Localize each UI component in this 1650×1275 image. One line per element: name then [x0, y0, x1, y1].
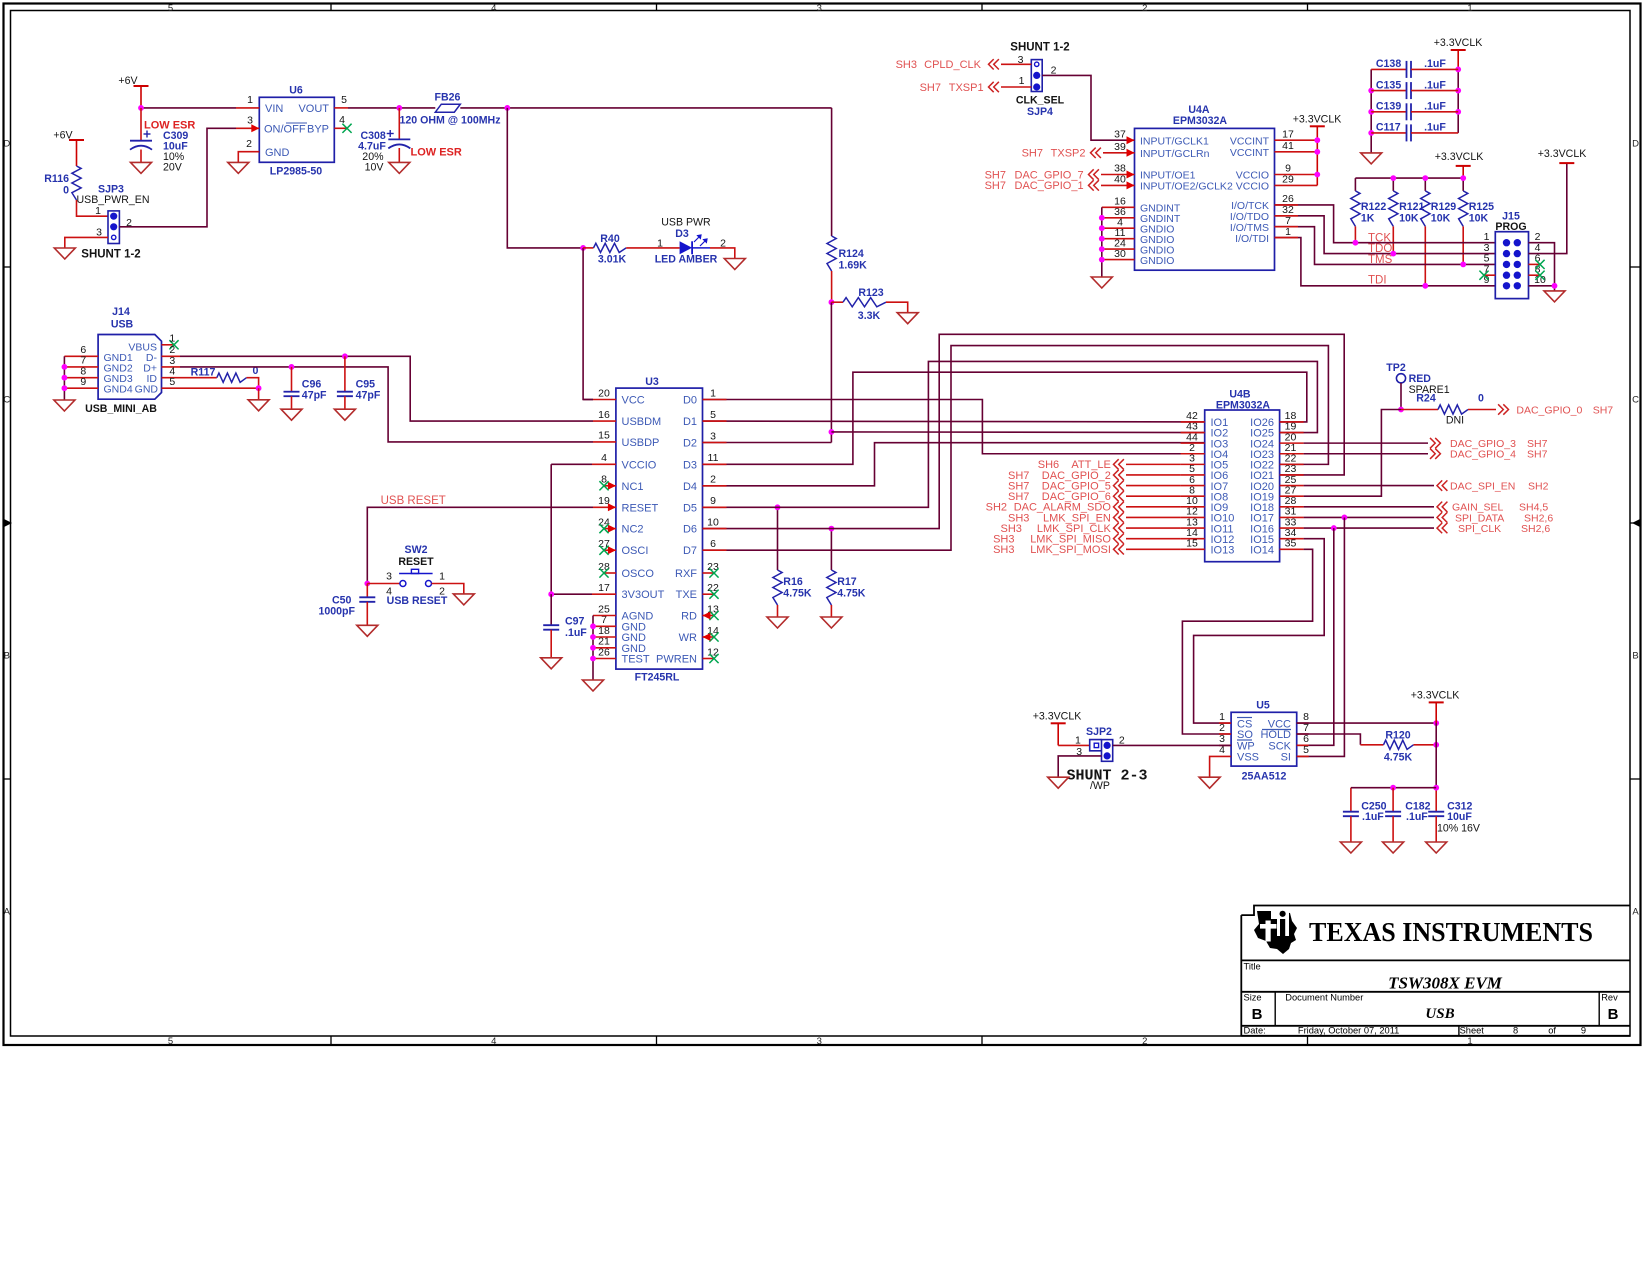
capacitor C250 [1343, 800, 1387, 842]
label SHUNT 1-2 (SJP4) [1010, 42, 1069, 54]
jumper SJP2 [1075, 726, 1125, 761]
svg-text:8: 8 [1513, 1026, 1518, 1036]
svg-text:22: 22 [707, 582, 719, 594]
svg-text:4.75K: 4.75K [783, 588, 812, 600]
J15 pin8 no-connect [1529, 271, 1545, 280]
svg-text:B: B [1252, 1006, 1263, 1023]
power symbol +3.3VCLK (J15) [1538, 148, 1587, 163]
ground (R17) [821, 617, 842, 628]
wire IO14 to U5 SO [1182, 549, 1312, 734]
svg-text:+3.3VCLK: +3.3VCLK [1434, 37, 1483, 49]
wire SW2 pin1 to ground [432, 584, 464, 594]
svg-text:C135: C135 [1376, 79, 1401, 91]
svg-text:U5: U5 [1256, 700, 1270, 712]
svg-text:SJP2: SJP2 [1086, 726, 1112, 738]
ground (SJP3) [54, 248, 75, 259]
svg-text:VOUT: VOUT [298, 103, 329, 115]
node junction caps rail [1433, 785, 1439, 791]
wire 5V rail corner down to R124 [831, 108, 833, 236]
port TXSP2 (SH7) to GCLRn [1022, 148, 1135, 160]
svg-text:20: 20 [598, 387, 610, 399]
U3 pin 4 VCCIO wire loop [551, 464, 616, 594]
port LMK_SPI_MOSI (SH3) [993, 544, 1181, 556]
svg-text:of: of [1548, 1026, 1556, 1036]
ground (C95) [334, 409, 355, 420]
IC U6 LP2985-50 regulator [259, 85, 334, 178]
svg-text:RXF: RXF [675, 568, 697, 580]
wire U3 ground bus [592, 616, 594, 681]
svg-text:C: C [1632, 395, 1639, 406]
svg-text:CLK_SEL: CLK_SEL [1016, 95, 1065, 107]
svg-text:VCC: VCC [622, 395, 645, 407]
node junction R16/D5 [775, 504, 781, 510]
U4A left pin numbers [1114, 128, 1126, 259]
svg-text:TSW308X EVM: TSW308X EVM [1388, 974, 1503, 993]
svg-text:4.75K: 4.75K [837, 588, 866, 600]
svg-text:6: 6 [710, 538, 716, 550]
svg-text:DNI: DNI [1446, 415, 1464, 427]
svg-text:2: 2 [246, 138, 252, 150]
svg-text:VCCIO: VCCIO [1236, 181, 1269, 193]
svg-text:SH3: SH3 [896, 59, 917, 71]
wire net D0 to IO4 [703, 400, 1205, 454]
svg-text:VCCIO: VCCIO [622, 459, 657, 471]
U3 right pin stubs red [703, 400, 727, 551]
svg-text:1K: 1K [1361, 213, 1375, 225]
wire TP2 to R24 node [1400, 383, 1402, 410]
resistor R116 [44, 166, 81, 200]
svg-text:39: 39 [1114, 141, 1126, 153]
jumper SJP4 [1016, 54, 1065, 118]
port CPLD_CLK (SH3) [896, 59, 1032, 71]
svg-text:0: 0 [63, 185, 69, 197]
svg-text:D5: D5 [683, 502, 697, 514]
J14 pin3 D+ stub [162, 355, 181, 367]
svg-text:1: 1 [1019, 75, 1025, 87]
svg-text:VSS: VSS [1237, 751, 1259, 763]
label SHUNT 2-3 [1066, 768, 1147, 793]
svg-text:SH7: SH7 [985, 180, 1006, 192]
svg-text:FT245RL: FT245RL [635, 672, 680, 684]
svg-text:+3.3VCLK: +3.3VCLK [1435, 151, 1484, 163]
svg-text:3.01K: 3.01K [598, 254, 627, 266]
svg-text:A: A [4, 907, 11, 918]
svg-text:Document Number: Document Number [1285, 993, 1363, 1003]
wire D- net [180, 356, 593, 421]
svg-text:4: 4 [601, 452, 607, 464]
wire IO24 to DAC_GPIO_3 port [1304, 442, 1428, 444]
resistor R117 [191, 365, 259, 388]
wire D+ net [180, 367, 593, 442]
svg-text:B: B [1632, 651, 1638, 662]
port LMK_SPI_MISO (SH3) [993, 533, 1181, 545]
port GAIN_SEL (SH4,5) [1437, 502, 1548, 514]
port DAC_GPIO_3 (SH7) [1430, 438, 1548, 450]
ground (SJP2) [1048, 777, 1069, 788]
U3 right no-connect pins RXF TXE RD WR PWREN [703, 568, 719, 663]
U3 pin 20 VCC stub [583, 399, 616, 401]
svg-text:D0: D0 [683, 395, 697, 407]
wire J14 ground bus [63, 356, 65, 400]
svg-text:23: 23 [707, 561, 719, 573]
svg-text:LOW ESR: LOW ESR [144, 120, 195, 132]
svg-text:R117: R117 [191, 367, 216, 379]
svg-text:3: 3 [817, 1036, 822, 1047]
svg-text:1: 1 [247, 94, 253, 106]
ferrite bead FB26 [400, 92, 501, 127]
node junctions U3 gnd bus [590, 623, 596, 661]
wire SJP3 pin2 to U6 ON/OFF [119, 128, 236, 227]
U3 pin 16 USBDM stub [593, 420, 616, 422]
IC U4A EPM3032A [1135, 104, 1275, 270]
svg-text:VCCINT: VCCINT [1230, 135, 1270, 147]
wire U4A ground bus [1101, 207, 1103, 277]
svg-text:DAC_SPI_EN: DAC_SPI_EN [1450, 480, 1515, 492]
capacitor C138 [1371, 58, 1458, 78]
node junctions pullup bus [1390, 175, 1466, 181]
capacitor C309 [130, 108, 188, 174]
node junctions cap bank [1368, 67, 1461, 136]
svg-text:15: 15 [598, 430, 610, 442]
node junction R17/D6 [829, 526, 835, 532]
wire IO20 to DAC_SPI_EN port [1304, 485, 1434, 487]
svg-text:WR: WR [679, 632, 697, 644]
svg-text:5: 5 [169, 376, 175, 388]
svg-text:11: 11 [708, 452, 719, 464]
svg-text:BYP: BYP [307, 124, 329, 136]
ground (C96) [281, 409, 302, 420]
capacitor C95 [337, 356, 381, 409]
U6 pin 5 VOUT [334, 94, 348, 108]
svg-text:17: 17 [598, 582, 610, 594]
svg-text:SH2,6: SH2,6 [1521, 523, 1550, 535]
ground (C309) [131, 162, 152, 173]
svg-text:R24: R24 [1416, 393, 1436, 405]
svg-text:LMK_SPI_MOSI: LMK_SPI_MOSI [1030, 544, 1111, 556]
ground (C182) [1383, 842, 1404, 853]
svg-text:LP2985-50: LP2985-50 [270, 166, 323, 178]
svg-text:NC2: NC2 [622, 524, 644, 536]
power symbol +3.3VCLK (U5) [1411, 690, 1460, 724]
node junction 3V3OUT/C97 [548, 591, 554, 597]
svg-text:USB_MINI_AB: USB_MINI_AB [85, 403, 157, 415]
svg-text:47pF: 47pF [302, 390, 327, 402]
svg-text:LED AMBER: LED AMBER [655, 254, 718, 266]
ground (U5 VSS) [1199, 777, 1220, 788]
svg-text:SH3: SH3 [993, 544, 1014, 556]
svg-text:10% 16V: 10% 16V [1437, 823, 1481, 835]
wire IO19 to R24 node [1304, 410, 1401, 497]
svg-text:SH2: SH2 [1528, 480, 1549, 492]
wire cap bank right bus [1457, 69, 1459, 132]
svg-text:C139: C139 [1376, 101, 1401, 113]
svg-text:120 OHM @ 100MHz: 120 OHM @ 100MHz [400, 115, 501, 127]
svg-text:3: 3 [817, 3, 822, 14]
svg-text:3: 3 [710, 430, 716, 442]
svg-text:1.69K: 1.69K [839, 259, 868, 271]
svg-text:Title: Title [1244, 962, 1261, 972]
capacitor C135 [1371, 79, 1458, 99]
port DAC_GPIO_7 (SH7) to OE1 [985, 169, 1135, 181]
svg-text:3.3K: 3.3K [858, 310, 881, 322]
svg-text:NC1: NC1 [622, 481, 644, 493]
svg-text:R120: R120 [1385, 730, 1410, 742]
port TXSP1 (SH7) [920, 82, 1032, 94]
svg-text:USB PWR: USB PWR [661, 217, 711, 229]
node junction TCK/R122 [1353, 240, 1359, 246]
wire net D2 (R124/R123 node) [703, 442, 832, 444]
svg-text:C117: C117 [1376, 122, 1401, 134]
svg-text:1: 1 [1467, 1036, 1472, 1047]
ground (U6 GND) [228, 162, 249, 173]
wire U6 VOUT to FB26 [348, 107, 435, 109]
svg-text:.1uF: .1uF [565, 627, 587, 639]
node junction R40 / U3 VCC [580, 245, 586, 251]
port LMK_SPI_CLK (SH3) [1001, 523, 1181, 535]
svg-text:SJP4: SJP4 [1027, 106, 1053, 118]
resistor R124 [827, 236, 867, 302]
svg-text:R17: R17 [837, 576, 857, 588]
node junction C308 tap [396, 105, 402, 111]
ground (J14) [54, 400, 75, 411]
U3 pin 19 RESET stub [593, 503, 616, 511]
port DAC_GPIO_2 (SH7) [1008, 470, 1181, 482]
svg-text:D4: D4 [683, 481, 697, 493]
capacitor C308 [358, 108, 410, 174]
svg-text:OSCO: OSCO [622, 568, 655, 580]
switch SW2 RESET [386, 544, 448, 607]
wire +6V node to U6 VIN [141, 107, 236, 109]
port DAC_GPIO_6 (SH7) [1008, 491, 1181, 503]
power symbol +3.3VCLK (JTAG) [1435, 151, 1484, 178]
label TDO [1368, 243, 1392, 255]
node junction C95 tap [342, 353, 348, 359]
node junction at x=507 (R40 branch) [504, 105, 510, 111]
resistor R24 (DNI) [1401, 393, 1496, 427]
wire 5V branch down to R40 row [507, 108, 583, 248]
U3 right pin numbers [707, 387, 719, 658]
node junction R117/GND [256, 385, 262, 391]
U5 pin numbers [1219, 711, 1309, 756]
ground (C308) [389, 162, 410, 173]
svg-text:OSCI: OSCI [622, 545, 649, 557]
svg-text:SPI_CLK: SPI_CLK [1458, 523, 1501, 535]
svg-text:/WP: /WP [1090, 780, 1110, 792]
port LMK_SPI_EN (SH3) [1008, 512, 1181, 524]
U4B left pin stubs [1181, 422, 1205, 549]
label USB RESET net [381, 495, 446, 507]
U3 pin 15 USBDP stub [593, 441, 616, 443]
svg-text:10V: 10V [365, 162, 385, 174]
wire R124 bottom to D2 net [830, 302, 832, 442]
node junction C96 tap [289, 364, 295, 370]
wire U5 HOLD to R120 [1297, 734, 1361, 745]
port DAC_GPIO_5 (SH7) [1008, 480, 1181, 492]
node junctions VCC stubs [1314, 137, 1320, 177]
LED D3 USB PWR amber [655, 217, 726, 266]
wire J15 pin10 to ground [1529, 286, 1555, 291]
title block frame [1241, 906, 1630, 1036]
capacitor C139 [1371, 101, 1458, 121]
svg-text:INPUT/OE2/GCLK2: INPUT/OE2/GCLK2 [1140, 181, 1233, 193]
svg-text:4: 4 [491, 3, 496, 14]
svg-text:4: 4 [491, 1036, 496, 1047]
svg-text:C97: C97 [565, 616, 585, 628]
port DAC_GPIO_4 (SH7) [1430, 449, 1548, 461]
svg-text:17: 17 [1282, 128, 1294, 140]
node junction SPI_CLK [1331, 525, 1337, 531]
svg-text:20V: 20V [163, 162, 183, 174]
IC U5 25AA512 [1231, 700, 1297, 783]
wire net D5 to IO25 [703, 361, 1318, 507]
svg-text:SW2: SW2 [405, 544, 428, 556]
wire J15 pin2 to ground rail [1529, 243, 1555, 286]
wire net D1 to IO1 [703, 420, 1205, 423]
U4A right pin numbers [1282, 128, 1294, 237]
J15 left pin numbers [1484, 231, 1490, 286]
svg-text:SH2: SH2 [986, 502, 1007, 514]
svg-text:D: D [1632, 139, 1639, 150]
svg-text:0: 0 [1478, 393, 1484, 405]
svg-text:25AA512: 25AA512 [1242, 771, 1287, 783]
J14 pin1 VBUS no-connect [162, 333, 179, 350]
svg-text:TP2: TP2 [1386, 362, 1406, 374]
svg-text:R40: R40 [600, 233, 620, 245]
capacitor C182 [1385, 788, 1431, 842]
svg-text:4: 4 [339, 114, 345, 126]
svg-text:2: 2 [1142, 3, 1147, 14]
jumper SJP3 [77, 184, 150, 261]
svg-text:Sheet: Sheet [1460, 1026, 1485, 1036]
svg-text:VIN: VIN [265, 103, 283, 115]
resistor R122 [1351, 191, 1387, 227]
capacitor C50 [318, 584, 375, 626]
wire R122 to TCK [1354, 226, 1356, 242]
label TDI [1368, 274, 1387, 286]
svg-text:10K: 10K [1469, 213, 1489, 225]
IC U3 FT245RL [616, 376, 703, 684]
capacitor C97 [543, 594, 587, 658]
svg-text:DAC_GPIO_1: DAC_GPIO_1 [1015, 180, 1084, 192]
wire IO23 to DAC_GPIO_4 port [1304, 453, 1428, 455]
wire net TCK [1275, 205, 1496, 243]
power symbol +6V (above C309) [118, 75, 148, 108]
svg-text:RESET: RESET [398, 556, 434, 568]
svg-text:R16: R16 [783, 576, 803, 588]
wire net D6 to IO21 [703, 334, 1345, 528]
svg-text:5: 5 [341, 94, 347, 106]
svg-text:VCCINT: VCCINT [1230, 147, 1270, 159]
svg-text:SHUNT 1-2: SHUNT 1-2 [81, 249, 140, 261]
svg-text:PROG: PROG [1495, 221, 1526, 233]
svg-text:LOW ESR: LOW ESR [411, 147, 462, 159]
svg-text:U6: U6 [289, 85, 303, 97]
wire GND pin5 to ground [258, 388, 260, 400]
svg-text:USB RESET: USB RESET [387, 595, 448, 607]
port DAC_GPIO_1 (SH7) to OE2 [985, 180, 1135, 192]
svg-text:1: 1 [169, 333, 175, 345]
U3 left pin numbers [598, 387, 610, 658]
svg-text:TXSP2: TXSP2 [1051, 148, 1086, 160]
svg-text:IO14: IO14 [1250, 545, 1274, 557]
svg-text:10: 10 [707, 516, 719, 528]
svg-text:USB: USB [111, 319, 134, 331]
resistor R123 [831, 287, 907, 322]
svg-text:9: 9 [710, 495, 716, 507]
svg-text:.1uF: .1uF [1424, 79, 1446, 91]
ground (C97) [541, 658, 562, 669]
wire R121 to TDO [1392, 226, 1394, 253]
svg-text:29: 29 [1282, 174, 1294, 186]
resistor R129 [1421, 191, 1457, 227]
svg-text:10K: 10K [1399, 213, 1419, 225]
svg-text:A: A [1632, 907, 1639, 918]
node junction TDO/R121 [1390, 251, 1396, 257]
J15 pin7 no-connect [1479, 271, 1495, 280]
port ATT_LE (SH6) [1038, 459, 1181, 471]
J14 pin2 D- stub [162, 344, 181, 356]
svg-text:D3: D3 [683, 459, 697, 471]
svg-text:10uF: 10uF [1447, 811, 1472, 823]
ground (D3) [724, 259, 745, 270]
svg-text:GND: GND [135, 384, 159, 396]
port SPI_DATA (SH2,6) [1437, 512, 1553, 524]
capacitor C96 [284, 367, 328, 409]
svg-text:D2: D2 [683, 438, 697, 450]
U3 AGND/GND/TEST stubs [593, 616, 616, 659]
svg-text:1: 1 [1075, 734, 1081, 746]
U4A VCCINT/VCCIO stubs [1275, 140, 1318, 185]
svg-text:D: D [3, 139, 10, 150]
svg-text:TEXAS INSTRUMENTS: TEXAS INSTRUMENTS [1309, 917, 1593, 947]
svg-text:4.75K: 4.75K [1384, 752, 1413, 764]
U6 pin 1 VIN [236, 94, 259, 108]
svg-text:U3: U3 [645, 376, 659, 388]
svg-text:Rev: Rev [1601, 993, 1618, 1003]
svg-text:D7: D7 [683, 545, 697, 557]
svg-text:FB26: FB26 [435, 92, 461, 104]
svg-text:RD: RD [681, 611, 697, 623]
svg-text:PWREN: PWREN [656, 654, 697, 666]
svg-text:Friday, October 07, 2011: Friday, October 07, 2011 [1298, 1026, 1399, 1036]
port DAC_GPIO_0 (SH7) [1498, 404, 1613, 416]
svg-text:.1uF: .1uF [1406, 811, 1428, 823]
svg-text:TEST: TEST [622, 654, 650, 666]
svg-text:9: 9 [1581, 1026, 1586, 1036]
resistor R121 [1389, 191, 1425, 227]
wire net D4 to IO3 [703, 443, 1205, 486]
svg-text:SI: SI [1281, 751, 1291, 763]
svg-text:5: 5 [168, 1036, 173, 1047]
svg-text:USB RESET: USB RESET [381, 495, 446, 507]
label TMS [1368, 254, 1393, 266]
wire net TDI [1275, 238, 1496, 286]
svg-text:GNDIO: GNDIO [1140, 255, 1174, 267]
ground (cap bank) [1361, 153, 1382, 164]
svg-text:SH7: SH7 [1022, 148, 1043, 160]
wire net D7 to IO22 [703, 346, 1329, 551]
node junction TDI/R129 [1422, 283, 1428, 289]
node junction R120 rail [1433, 742, 1439, 748]
svg-text:.1uF: .1uF [1424, 101, 1446, 113]
wire IO16 SPI_CLK net [1304, 527, 1434, 529]
wire RESET net [367, 507, 593, 583]
svg-text:28: 28 [598, 561, 610, 573]
node junctions U4A gnd bus [1099, 215, 1105, 263]
node junction SW2/C50 [364, 581, 370, 587]
ground (C250) [1340, 842, 1361, 853]
svg-text:9: 9 [80, 376, 86, 388]
